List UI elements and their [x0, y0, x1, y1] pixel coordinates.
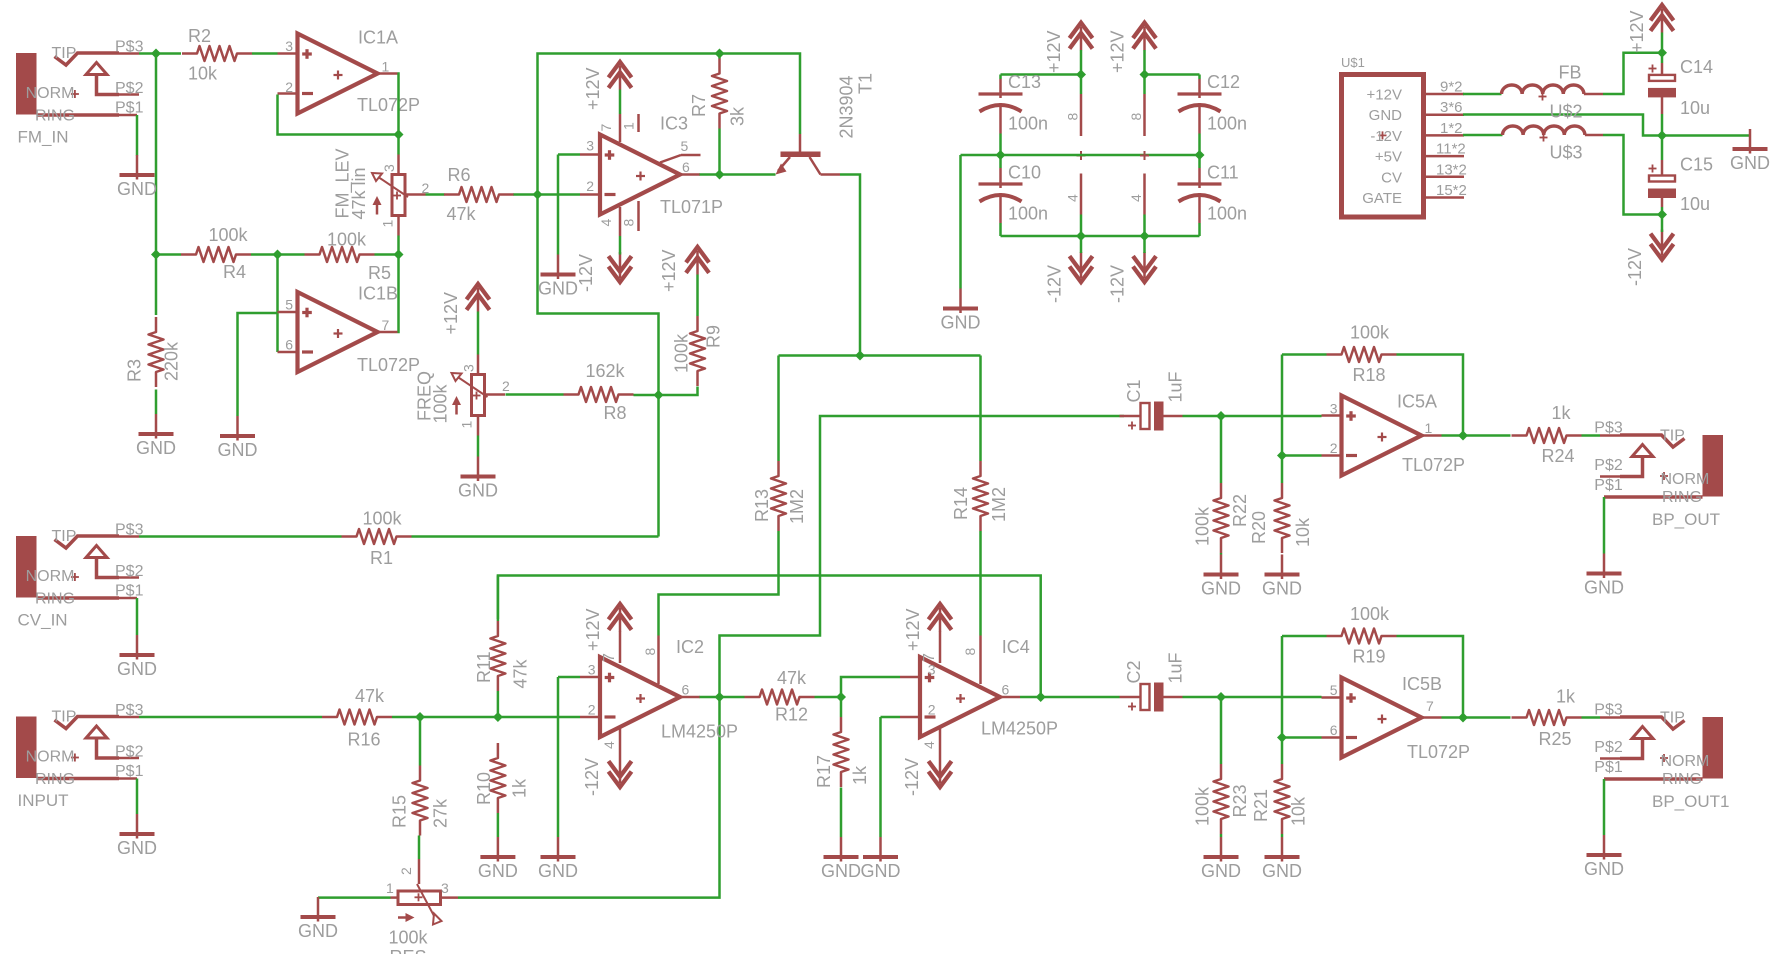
ground IC3 pin3 — [557, 255, 560, 280]
svg-text:GND: GND — [538, 861, 578, 881]
svg-text:10u: 10u — [1680, 194, 1710, 214]
svg-text:LM4250P: LM4250P — [981, 719, 1058, 739]
resistor R8 162k — [564, 387, 634, 402]
wire R24 to BP_OUT — [1582, 434, 1601, 437]
svg-text:R15: R15 — [390, 795, 410, 828]
svg-text:TIP: TIP — [52, 45, 77, 62]
svg-text:3*6: 3*6 — [1440, 99, 1463, 116]
ground R22 — [1220, 555, 1223, 580]
svg-text:2: 2 — [502, 378, 510, 394]
power +12V IC3 — [609, 62, 632, 78]
svg-text:3: 3 — [461, 364, 477, 372]
wire INPUT to R16 — [139, 716, 322, 719]
wire R19 left — [1282, 635, 1327, 638]
svg-text:+12V: +12V — [659, 249, 679, 292]
wire junction to IC1B out — [398, 255, 399, 333]
ground IC1B pin5 — [236, 416, 239, 441]
svg-text:2: 2 — [1330, 440, 1338, 456]
svg-text:100n: 100n — [1008, 204, 1048, 224]
svg-text:100k: 100k — [209, 225, 249, 245]
node C1 out junction — [1216, 411, 1226, 421]
svg-text:R23: R23 — [1230, 784, 1250, 817]
svg-text:1k: 1k — [510, 778, 530, 798]
svg-text:P$2: P$2 — [1594, 457, 1623, 474]
wire R18 left — [1282, 353, 1327, 356]
power +12V R9 — [686, 247, 709, 263]
pin 13*2 CV U$1 — [1424, 176, 1465, 179]
svg-text:R7: R7 — [689, 94, 709, 117]
svg-text:R12: R12 — [775, 705, 808, 725]
wire collector rail — [779, 354, 981, 357]
power pin 8 IC5 — [1143, 94, 1146, 136]
power -12V IC2 — [609, 772, 632, 788]
svg-text:R22: R22 — [1230, 494, 1250, 527]
wire IC5A pin2 node — [1282, 454, 1322, 457]
node +12V left — [1076, 70, 1086, 80]
resistor R4 100k — [181, 247, 251, 262]
power +12V FREQ — [467, 284, 490, 300]
svg-text:R4: R4 — [223, 262, 246, 282]
power pin 8 IC1 — [1080, 94, 1083, 136]
node R20/R18 junction — [1277, 451, 1287, 461]
svg-text:GND: GND — [1262, 579, 1302, 599]
svg-text:+12V: +12V — [441, 292, 461, 335]
ground FREQ — [477, 457, 480, 482]
wire R16 to R10 node — [392, 716, 580, 719]
svg-text:8: 8 — [1065, 113, 1081, 121]
svg-text:TIP: TIP — [1660, 710, 1685, 727]
svg-text:2: 2 — [398, 867, 414, 875]
wire C1 tap — [720, 416, 1125, 697]
svg-text:-12V: -12V — [582, 758, 602, 796]
svg-text:R6: R6 — [448, 165, 471, 185]
wire rail to T1 base — [720, 54, 801, 135]
resistor R13 1M2 — [771, 461, 786, 531]
wire R15 to RES pot — [418, 836, 421, 860]
svg-text:P$2: P$2 — [115, 80, 144, 97]
wire R17 to ground — [840, 788, 843, 838]
capacitor C1 1uF — [1120, 415, 1141, 418]
node +12V right — [1140, 70, 1150, 80]
pin 4 IC4 stub — [939, 727, 942, 757]
op-amp IC5B — [1342, 678, 1422, 758]
power -12V supply — [1651, 244, 1674, 260]
node +12V C14 — [1657, 48, 1667, 58]
resistor R19 100k — [1327, 629, 1397, 644]
svg-text:P$2: P$2 — [1594, 739, 1623, 756]
pin 7 IC2 stub — [619, 631, 622, 663]
svg-text:2: 2 — [285, 79, 293, 95]
svg-text:100k: 100k — [1350, 323, 1390, 343]
resistor R18 100k — [1327, 347, 1397, 362]
resistor R24 1k — [1512, 428, 1582, 443]
svg-text:CV: CV — [1381, 169, 1402, 186]
transistor T1 2N3904 — [799, 134, 802, 152]
node feedback junction — [394, 130, 404, 140]
node R10/R11 junction — [493, 712, 503, 722]
wire pin4 right to rail — [1143, 215, 1146, 237]
svg-text:7: 7 — [598, 124, 614, 132]
wire R13 to IC2 pin8 — [659, 531, 779, 636]
resistor R14 1M2 — [973, 461, 988, 531]
svg-text:-12V: -12V — [1370, 128, 1402, 145]
svg-text:4: 4 — [601, 741, 617, 749]
svg-text:LM4250P: LM4250P — [661, 722, 738, 742]
svg-text:1k: 1k — [850, 765, 870, 785]
svg-text:GND: GND — [1201, 861, 1241, 881]
svg-text:100k: 100k — [1193, 786, 1213, 826]
svg-text:100k: 100k — [1193, 506, 1213, 546]
wire IC4 out — [1020, 696, 1120, 699]
svg-text:8: 8 — [621, 219, 637, 227]
svg-text:1M2: 1M2 — [989, 487, 1009, 522]
svg-text:TIP: TIP — [52, 709, 77, 726]
wire junction down to R4 row — [155, 54, 158, 255]
wire R2 to IC1A pin3 — [252, 52, 278, 55]
wire FREQ pin1 to ground — [477, 436, 480, 457]
svg-text:1: 1 — [459, 421, 475, 429]
node FM_IN junction — [151, 49, 161, 59]
svg-text:R3: R3 — [125, 359, 145, 382]
node R12/R17 junction — [836, 692, 846, 702]
wire R21 to ground — [1281, 834, 1284, 837]
svg-text:R24: R24 — [1542, 446, 1575, 466]
power +12V C12 rail — [1133, 23, 1156, 39]
svg-text:P$1: P$1 — [1594, 477, 1623, 494]
resistor R9 100k — [690, 316, 705, 386]
node R4/R5 junction — [273, 250, 283, 260]
node gnd rail right — [1195, 150, 1205, 160]
resistor R25 1k — [1512, 710, 1582, 725]
wire rail to R13 — [777, 356, 780, 462]
ground INPUT sleeve — [136, 779, 139, 815]
svg-text:TL071P: TL071P — [660, 197, 723, 217]
svg-text:7: 7 — [382, 317, 390, 333]
svg-text:GND: GND — [117, 659, 157, 679]
capacitor C11 100n — [1198, 155, 1201, 168]
svg-text:6: 6 — [1330, 722, 1338, 738]
svg-text:RES: RES — [390, 947, 427, 954]
pin 15*2 GATE U$1 — [1424, 196, 1465, 199]
node IC2 out junction — [715, 692, 725, 702]
svg-text:+12V: +12V — [1367, 87, 1402, 104]
potentiometer FM_LEV 47k lin — [392, 175, 405, 216]
wire R16 node to R15 — [419, 717, 422, 766]
op-amp IC4 LM4250P — [920, 657, 1000, 737]
svg-text:GND: GND — [458, 481, 498, 501]
wire FM_LEV pin1 to R5 row — [397, 236, 400, 255]
pin 8 IC4 stub — [979, 636, 982, 685]
power pin 4 IC5 — [1143, 174, 1146, 215]
power -12V left — [1070, 267, 1093, 283]
svg-text:C12: C12 — [1207, 72, 1240, 92]
node -12V right — [1140, 231, 1150, 241]
svg-text:IC5A: IC5A — [1397, 392, 1437, 412]
svg-text:R20: R20 — [1249, 511, 1269, 544]
svg-text:1uF: 1uF — [1166, 371, 1186, 402]
ground R23 — [1220, 837, 1223, 862]
wire C13 to gnd rail — [999, 134, 1002, 156]
resistor R2 10k — [182, 46, 252, 61]
svg-text:4: 4 — [1128, 194, 1144, 202]
node IC3 in junction — [533, 190, 543, 200]
svg-text:TL072P: TL072P — [357, 95, 420, 115]
wire junction up to top rail — [538, 54, 720, 195]
svg-text:7: 7 — [1426, 698, 1434, 714]
svg-text:T1: T1 — [856, 73, 876, 94]
svg-text:1M2: 1M2 — [787, 489, 807, 524]
svg-text:R9: R9 — [704, 325, 724, 348]
svg-text:+5V: +5V — [1375, 149, 1402, 166]
node IC3 out junction — [715, 170, 725, 180]
node collector rail junction — [855, 351, 865, 361]
svg-text:100k: 100k — [1350, 604, 1390, 624]
wire FM_LEV wiper to R6 — [426, 193, 445, 196]
svg-text:1k: 1k — [1552, 403, 1572, 423]
feedback rail IC4 out to R11 — [498, 576, 1041, 698]
resistor R5 100k — [305, 247, 375, 262]
svg-text:TIP: TIP — [52, 528, 77, 545]
svg-text:R19: R19 — [1353, 647, 1386, 667]
svg-text:8: 8 — [642, 648, 658, 656]
op-amp IC1B — [298, 292, 378, 372]
svg-text:P$3: P$3 — [1594, 420, 1623, 437]
wire C1 to IC5A pin3 — [1183, 415, 1322, 418]
wire R11 bottom — [497, 691, 500, 717]
wire R22 bottom — [1220, 553, 1223, 555]
svg-text:P$3: P$3 — [1594, 702, 1623, 719]
power +12V C13 rail — [1070, 23, 1093, 39]
svg-text:R10: R10 — [474, 772, 494, 805]
svg-text:6: 6 — [682, 159, 690, 175]
svg-text:3k: 3k — [728, 106, 748, 126]
ground R21 — [1281, 837, 1284, 862]
svg-text:GND: GND — [1730, 153, 1770, 173]
ground R10 — [497, 837, 500, 862]
pin 5 IC3 stub — [660, 155, 681, 163]
svg-text:6: 6 — [285, 337, 293, 353]
capacitor C10 100n — [999, 155, 1002, 168]
wire gnd rail to ground — [959, 155, 962, 289]
svg-text:R2: R2 — [188, 26, 211, 46]
pin 1*2 -12V U$1 — [1424, 134, 1465, 137]
wire C14 to gnd node — [1661, 114, 1664, 136]
svg-text:NORM: NORM — [1661, 753, 1710, 770]
wire R7 top — [718, 54, 721, 59]
svg-text:+12V: +12V — [1108, 30, 1128, 73]
wire R18 to out — [1397, 355, 1464, 436]
svg-text:TL072P: TL072P — [1402, 455, 1465, 475]
svg-text:4: 4 — [1065, 194, 1081, 202]
wire FM_IN tip to R2 — [139, 52, 181, 55]
wire R19 to out — [1397, 636, 1464, 718]
svg-text:R14: R14 — [951, 487, 971, 520]
ground BP_OUT1 sleeve — [1603, 779, 1606, 835]
wire R9 to R8 junction — [659, 387, 698, 396]
svg-text:47k: 47k — [777, 668, 807, 688]
wire R4 left — [156, 253, 181, 256]
svg-text:1: 1 — [1425, 420, 1433, 436]
jack FM_IN — [16, 53, 37, 115]
ground decoupling — [959, 289, 962, 314]
wire rail to R14 — [979, 356, 982, 462]
svg-text:R13: R13 — [752, 489, 772, 522]
svg-text:IC2: IC2 — [676, 637, 704, 657]
resistor R3 220k — [149, 317, 164, 387]
op-amp IC5A — [1342, 396, 1422, 476]
wire IC3 out to T1 emitter — [700, 173, 776, 176]
wire feedback to pin2 — [278, 95, 399, 135]
wire R5 right — [375, 253, 399, 256]
svg-text:8: 8 — [1128, 113, 1144, 121]
capacitor C14 10u — [1661, 53, 1664, 63]
ground IC4 pin2 — [879, 837, 882, 862]
wire R23 top — [1220, 697, 1223, 764]
svg-text:GND: GND — [478, 861, 518, 881]
resistor R15 27k — [413, 766, 428, 836]
svg-text:P$1: P$1 — [115, 100, 144, 117]
pin 4 IC2 stub — [619, 727, 622, 757]
svg-text:5: 5 — [1330, 682, 1338, 698]
wire R17 top — [840, 697, 843, 717]
resistor R12 47k — [745, 690, 815, 705]
resistor R7 3k — [712, 59, 727, 129]
svg-text:RING: RING — [35, 591, 75, 608]
svg-text:1: 1 — [380, 220, 396, 228]
wire junction to IC1B pin6 — [276, 255, 279, 353]
node gnd C14/C15 — [1657, 131, 1667, 141]
svg-text:47k: 47k — [511, 658, 531, 688]
svg-text:5: 5 — [681, 138, 689, 154]
pin 11*2 +5V U$1 — [1424, 155, 1465, 158]
wire R25 to BP_OUT1 — [1582, 716, 1601, 719]
wire pin4 to rail — [1080, 215, 1083, 237]
pin 4 IC3 stub — [619, 207, 622, 236]
svg-text:100k: 100k — [431, 383, 451, 423]
svg-text:IC1B: IC1B — [358, 284, 398, 304]
svg-text:C1: C1 — [1124, 379, 1144, 402]
wire R1 to FM node — [412, 535, 659, 538]
svg-text:R17: R17 — [814, 755, 834, 788]
resistor R23 100k — [1214, 764, 1229, 834]
wire C10 to -12V rail — [999, 223, 1002, 236]
svg-text:R21: R21 — [1251, 789, 1271, 822]
svg-text:IC3: IC3 — [660, 114, 688, 134]
power +12V IC4 — [929, 604, 952, 620]
node -12V C15 — [1657, 210, 1667, 220]
wire RES pin3 to IC2 out — [458, 697, 720, 898]
svg-text:IC4: IC4 — [1002, 637, 1030, 657]
power +12V supply — [1651, 5, 1674, 21]
node C2 out junction — [1216, 692, 1226, 702]
svg-text:100k: 100k — [363, 509, 403, 529]
wire junction down — [538, 195, 659, 396]
svg-text:47k: 47k — [355, 686, 385, 706]
svg-text:RING: RING — [1662, 489, 1702, 506]
ground supply — [1749, 129, 1752, 154]
svg-text:3: 3 — [586, 138, 594, 154]
gnd mid rail — [961, 154, 1200, 157]
wire R8 right — [634, 394, 659, 397]
svg-text:1*2: 1*2 — [1440, 120, 1463, 137]
connector U$1 — [1342, 75, 1424, 218]
wire gnd node to GND — [1662, 134, 1750, 137]
op-amp IC2 LM4250P — [600, 657, 680, 737]
node R8/R9 junction — [654, 390, 664, 400]
-12V bottom rail — [1001, 235, 1200, 238]
svg-text:100n: 100n — [1008, 114, 1048, 134]
jack BP_OUT1 — [1703, 717, 1724, 779]
jack INPUT — [16, 717, 37, 779]
svg-text:C10: C10 — [1008, 163, 1041, 183]
svg-text:CV_IN: CV_IN — [18, 610, 68, 629]
svg-text:5: 5 — [285, 297, 293, 313]
resistor R16 47k — [322, 710, 392, 725]
svg-text:7: 7 — [921, 653, 938, 662]
wire R4 to R5 — [251, 253, 305, 256]
wire IC1A feedback — [398, 74, 399, 155]
wire R22 top — [1220, 416, 1223, 483]
wire R6 to IC3 pin2 — [514, 193, 581, 196]
svg-text:+12V: +12V — [903, 608, 923, 651]
svg-text:GND: GND — [1201, 579, 1241, 599]
svg-text:47k: 47k — [447, 204, 477, 224]
capacitor C12 100n — [1198, 75, 1201, 80]
svg-text:7: 7 — [601, 653, 618, 662]
wire C2 to IC5B pin5 — [1183, 696, 1322, 699]
resistor R11 47k — [490, 621, 505, 691]
wire R14 to IC4 pin8 — [979, 531, 982, 636]
wire C11 to -12V rail — [1198, 223, 1201, 236]
pin 8 IC2 stub — [657, 636, 660, 685]
ground R20 — [1281, 555, 1284, 580]
node R21/R19 junction — [1277, 733, 1287, 743]
node IC4 out junction — [1036, 692, 1046, 702]
svg-text:R18: R18 — [1353, 365, 1386, 385]
svg-text:GND: GND — [117, 179, 157, 199]
svg-text:+12V: +12V — [1627, 10, 1647, 53]
svg-text:2: 2 — [928, 702, 936, 718]
svg-text:3: 3 — [381, 164, 397, 172]
jack CV_IN — [16, 536, 37, 598]
svg-text:U$2: U$2 — [1550, 102, 1583, 122]
pin 7 IC4 stub — [939, 631, 942, 663]
resistor R17 1k — [834, 717, 849, 787]
inductor FB — [1463, 93, 1502, 96]
svg-text:BP_OUT: BP_OUT — [1652, 510, 1720, 529]
ground RES — [317, 897, 320, 922]
wire CV_IN to R1 — [139, 535, 342, 538]
pin 7 IC3 stub — [619, 114, 622, 142]
svg-text:162k: 162k — [586, 361, 626, 381]
svg-text:C15: C15 — [1680, 155, 1713, 175]
ground IC2 pin3 — [557, 837, 560, 862]
power +12V IC2 — [609, 604, 632, 620]
capacitor C2 1uF — [1120, 696, 1141, 699]
wire IC5B pin6 node — [1282, 736, 1322, 739]
svg-text:1: 1 — [621, 122, 637, 130]
svg-text:FB: FB — [1559, 63, 1582, 83]
node -12V left — [1076, 231, 1086, 241]
svg-text:TIP: TIP — [1660, 428, 1685, 445]
svg-text:P$1: P$1 — [115, 583, 144, 600]
svg-text:3: 3 — [588, 662, 596, 678]
svg-text:INPUT: INPUT — [18, 791, 69, 810]
wire R18 to pin2 — [1281, 355, 1284, 484]
potentiometer FREQ 100k — [472, 375, 485, 416]
svg-text:100n: 100n — [1207, 204, 1247, 224]
svg-text:9*2: 9*2 — [1440, 79, 1463, 96]
